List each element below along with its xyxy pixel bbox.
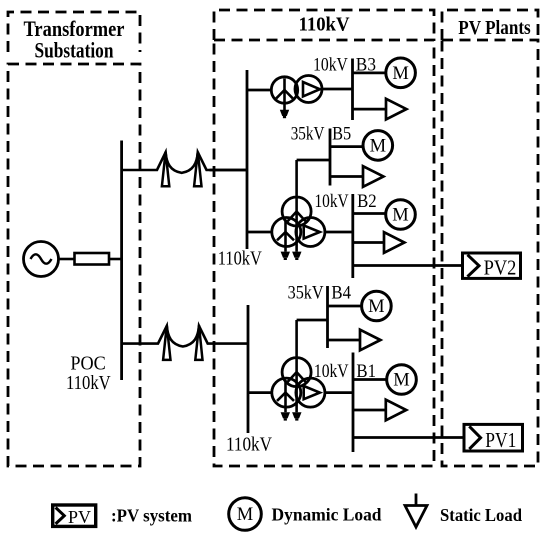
svg-text:B3: B3: [356, 55, 376, 76]
svg-text:10kV: 10kV: [313, 55, 348, 76]
svg-text:B5: B5: [332, 124, 351, 145]
svg-text:PV1: PV1: [485, 428, 516, 452]
svg-text:110kV: 110kV: [66, 373, 111, 394]
svg-text:Substation: Substation: [35, 38, 114, 63]
svg-text:110kV: 110kV: [299, 14, 351, 36]
svg-text::PV system: :PV system: [111, 506, 192, 526]
svg-text:110kV: 110kV: [226, 435, 272, 456]
svg-text:M: M: [392, 64, 408, 84]
svg-text:B2: B2: [357, 191, 377, 212]
svg-text:35kV: 35kV: [288, 282, 324, 303]
svg-text:B1: B1: [356, 361, 376, 382]
svg-text:PV2: PV2: [484, 256, 517, 280]
svg-text:110kV: 110kV: [218, 249, 262, 270]
svg-text:M: M: [370, 136, 386, 156]
svg-text:PV: PV: [68, 507, 91, 527]
svg-text:POC: POC: [70, 353, 105, 374]
svg-text:Static Load: Static Load: [440, 505, 522, 525]
svg-text:M: M: [237, 505, 253, 525]
svg-text:PV Plants: PV Plants: [458, 17, 531, 39]
svg-text:Dynamic Load: Dynamic Load: [272, 505, 382, 525]
svg-text:M: M: [368, 297, 384, 317]
svg-text:M: M: [393, 371, 409, 391]
svg-text:10kV: 10kV: [314, 361, 349, 382]
svg-text:B4: B4: [331, 282, 351, 303]
svg-text:10kV: 10kV: [315, 191, 349, 212]
svg-text:M: M: [392, 206, 408, 226]
svg-text:35kV: 35kV: [291, 124, 325, 145]
